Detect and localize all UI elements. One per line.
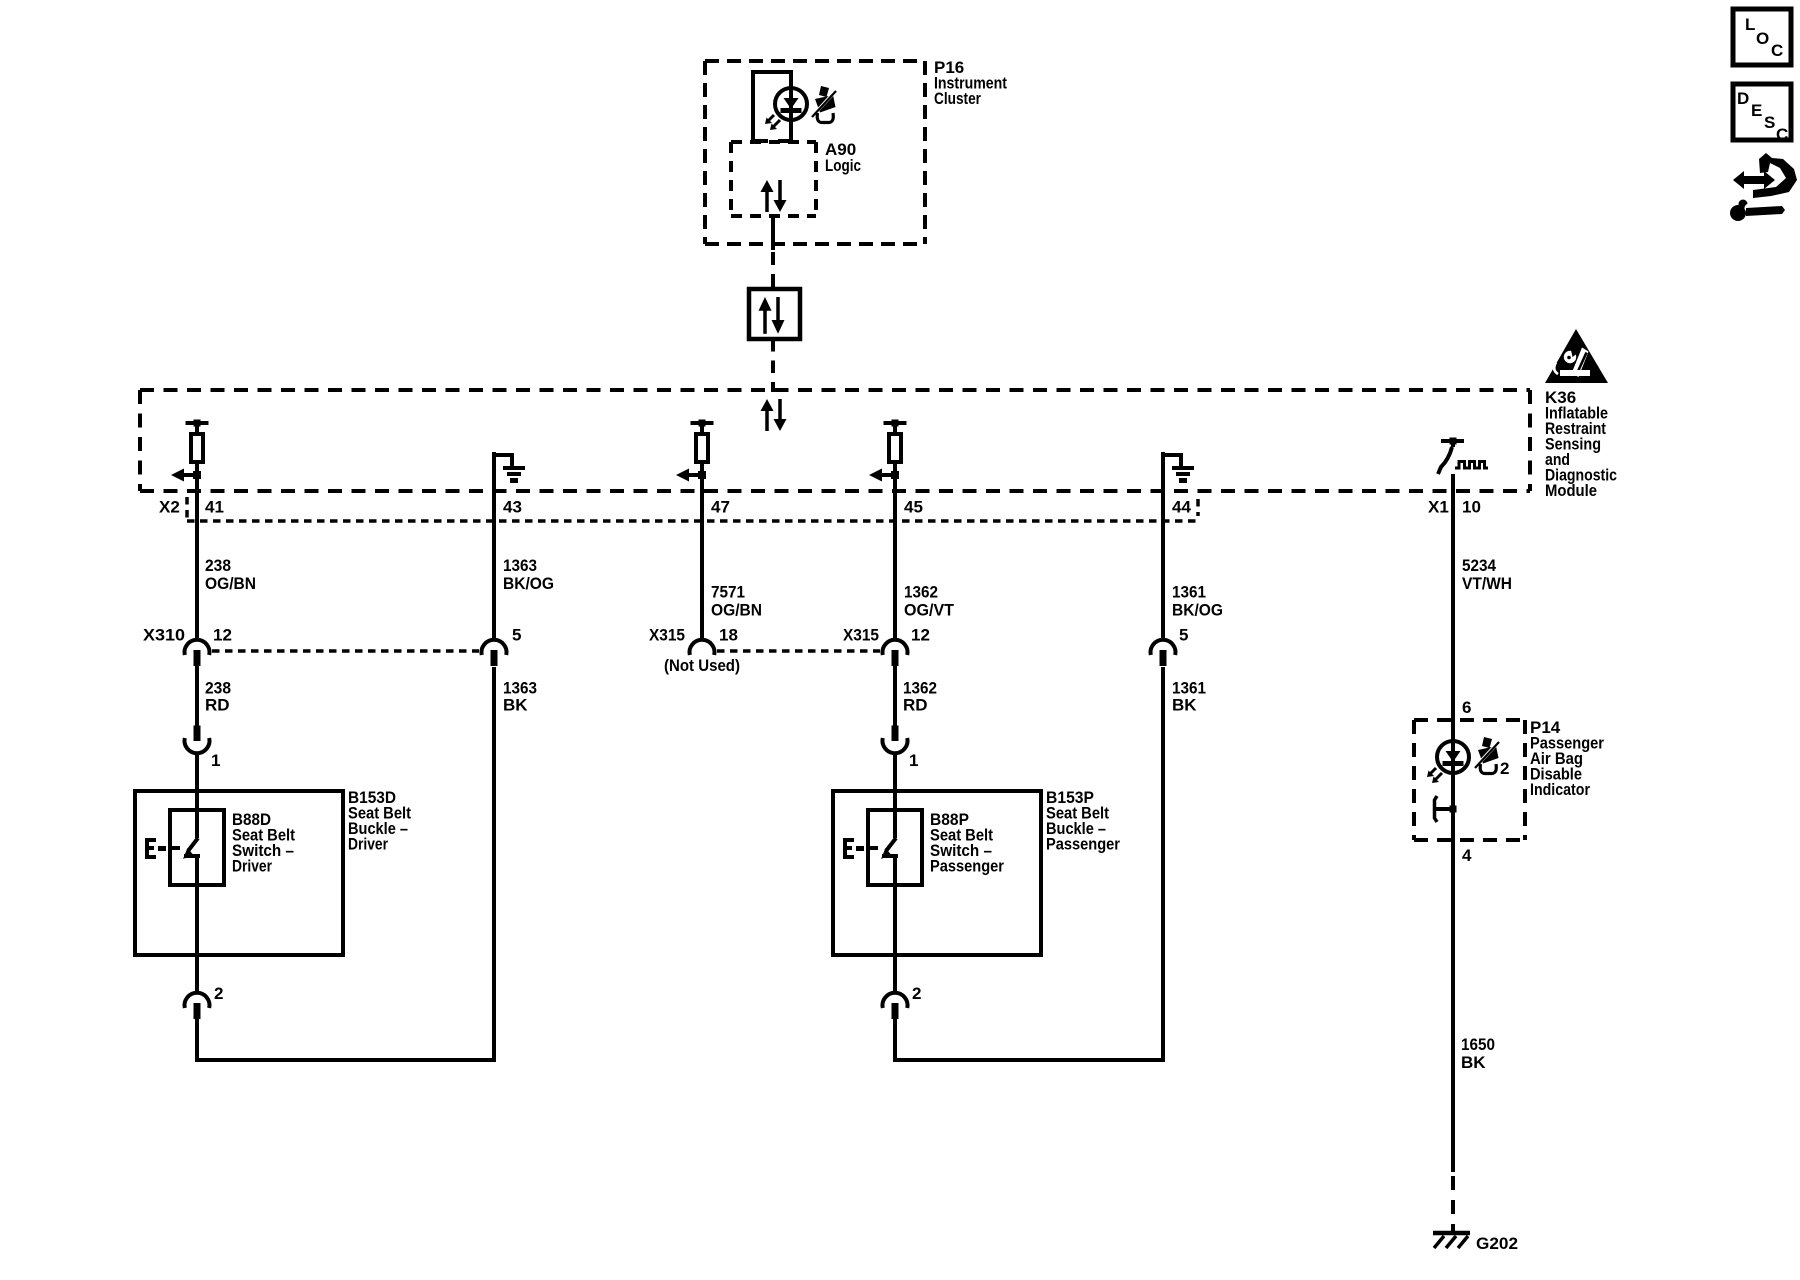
- svg-text:OG/BN: OG/BN: [711, 601, 762, 620]
- svg-text:5: 5: [512, 626, 521, 645]
- svg-text:C: C: [1771, 41, 1783, 60]
- svg-text:L: L: [1745, 15, 1755, 34]
- svg-text:Passenger: Passenger: [930, 857, 1004, 876]
- svg-text:1362: 1362: [904, 583, 938, 602]
- svg-text:Logic: Logic: [825, 156, 861, 175]
- svg-text:18: 18: [719, 626, 738, 645]
- svg-text:7571: 7571: [711, 583, 745, 602]
- svg-text:43: 43: [503, 498, 522, 517]
- svg-text:BK: BK: [1172, 696, 1197, 715]
- svg-text:BK/OG: BK/OG: [503, 574, 554, 593]
- svg-text:D: D: [1737, 89, 1749, 108]
- svg-text:Driver: Driver: [348, 835, 388, 854]
- svg-text:BK/OG: BK/OG: [1172, 601, 1223, 620]
- svg-text:2: 2: [912, 984, 921, 1003]
- svg-text:X310: X310: [143, 626, 185, 645]
- svg-text:OG/VT: OG/VT: [904, 601, 955, 620]
- svg-text:G202: G202: [1476, 1234, 1518, 1253]
- svg-text:BK: BK: [1461, 1053, 1486, 1072]
- svg-text:X315: X315: [649, 626, 685, 645]
- svg-text:RD: RD: [205, 696, 230, 715]
- svg-text:X2: X2: [159, 498, 180, 517]
- svg-text:VT/WH: VT/WH: [1462, 574, 1512, 593]
- svg-text:10: 10: [1462, 498, 1481, 517]
- svg-text:5234: 5234: [1462, 556, 1496, 575]
- svg-text:6: 6: [1462, 698, 1471, 717]
- svg-text:45: 45: [904, 498, 923, 517]
- svg-text:(Not Used): (Not Used): [664, 656, 740, 675]
- svg-text:Passenger: Passenger: [1046, 835, 1120, 854]
- svg-text:238: 238: [205, 556, 231, 575]
- svg-text:RD: RD: [903, 696, 928, 715]
- svg-text:1363: 1363: [503, 556, 537, 575]
- svg-text:12: 12: [911, 626, 930, 645]
- svg-text:O: O: [1756, 29, 1769, 48]
- svg-text:5: 5: [1179, 626, 1188, 645]
- svg-text:2: 2: [214, 984, 223, 1003]
- svg-text:Indicator: Indicator: [1530, 780, 1590, 799]
- svg-text:BK: BK: [503, 696, 528, 715]
- svg-text:Cluster: Cluster: [934, 89, 981, 108]
- svg-text:1650: 1650: [1461, 1035, 1495, 1054]
- svg-text:S: S: [1764, 113, 1775, 132]
- svg-text:1: 1: [211, 751, 220, 770]
- svg-text:E: E: [1751, 101, 1762, 120]
- svg-text:OG/BN: OG/BN: [205, 574, 256, 593]
- svg-text:C: C: [1776, 125, 1788, 144]
- svg-text:12: 12: [213, 626, 232, 645]
- svg-text:4: 4: [1462, 846, 1472, 865]
- svg-text:47: 47: [711, 498, 730, 517]
- svg-text:X315: X315: [843, 626, 879, 645]
- svg-text:1: 1: [909, 751, 918, 770]
- svg-text:1361: 1361: [1172, 583, 1206, 602]
- svg-text:Module: Module: [1545, 481, 1597, 500]
- svg-text:2: 2: [1500, 759, 1509, 778]
- svg-text:44: 44: [1172, 498, 1191, 517]
- svg-text:41: 41: [205, 498, 224, 517]
- svg-text:X1: X1: [1428, 498, 1449, 517]
- svg-text:Driver: Driver: [232, 857, 272, 876]
